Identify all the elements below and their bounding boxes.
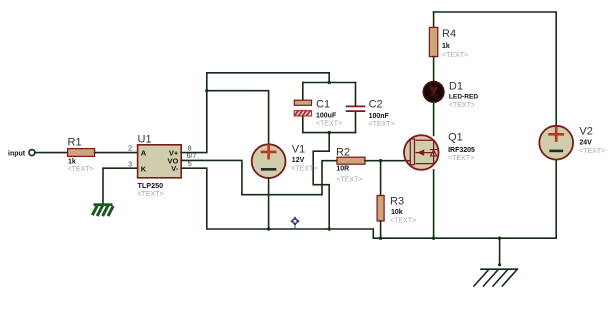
svg-text:100uF: 100uF bbox=[316, 113, 337, 120]
wire R3 top lead bbox=[380, 161, 382, 196]
junction R3 bottom on rail bbox=[379, 237, 382, 240]
svg-text:100nF: 100nF bbox=[369, 113, 390, 120]
ground (K pin of U1) bbox=[93, 203, 113, 214]
svg-text:12V: 12V bbox=[292, 157, 305, 164]
resistor R1 bbox=[68, 136, 95, 172]
junction V1 bottom on rail bbox=[267, 227, 270, 230]
wire Q1 source to ground rail bbox=[433, 170, 435, 238]
svg-text:2: 2 bbox=[128, 146, 132, 153]
resistor R3 bbox=[377, 195, 416, 224]
svg-text:<TEXT>: <TEXT> bbox=[316, 121, 342, 128]
wire R2 to Q1 gate bbox=[365, 160, 404, 162]
wire input to R1 bbox=[35, 152, 68, 154]
node input terminal bbox=[8, 150, 35, 158]
svg-text:V2: V2 bbox=[579, 126, 592, 138]
svg-text:6/7: 6/7 bbox=[187, 153, 197, 160]
junction earth stem on rail bbox=[498, 237, 501, 240]
wire R3 bottom lead bbox=[380, 221, 382, 238]
svg-text:R4: R4 bbox=[442, 28, 456, 40]
svg-text:1k: 1k bbox=[68, 158, 76, 165]
wire top rail right bbox=[434, 12, 557, 126]
wire R1 to U1 pin 2 bbox=[95, 152, 138, 154]
wire U1 pin 6/7 detour to R2 bbox=[181, 160, 337, 194]
wire U1 pin 5 along ground rail to V2 minus bbox=[181, 160, 556, 238]
svg-text:C2: C2 bbox=[369, 99, 383, 111]
svg-text:3: 3 bbox=[128, 161, 132, 168]
svg-text:<TEXT>: <TEXT> bbox=[291, 166, 317, 173]
svg-text:TLP250: TLP250 bbox=[138, 181, 164, 190]
wire U1 pin 3 to ground bbox=[103, 168, 138, 203]
svg-text:1k: 1k bbox=[442, 43, 450, 50]
svg-text:A: A bbox=[141, 149, 147, 158]
svg-text:R1: R1 bbox=[68, 136, 82, 148]
junction Q1 source on rail bbox=[432, 237, 435, 240]
diode D1 LED-RED bbox=[423, 81, 478, 109]
svg-text:V1: V1 bbox=[292, 144, 305, 156]
transistor Q1 IRF3205 bbox=[404, 131, 475, 169]
wire top rail to capacitor rail bbox=[207, 73, 329, 83]
junction zigzag on ground rail bbox=[328, 227, 331, 230]
wire zigzag cap rail to ground rail bbox=[313, 133, 329, 229]
svg-text:input: input bbox=[8, 151, 26, 158]
battery V2 24V bbox=[539, 126, 605, 160]
resistor R4 bbox=[429, 27, 468, 58]
svg-text:8: 8 bbox=[188, 145, 192, 152]
junction cap top rail bbox=[328, 81, 331, 84]
wire D1 to Q1 drain bbox=[433, 102, 435, 135]
svg-text:5: 5 bbox=[188, 161, 192, 168]
svg-text:R2: R2 bbox=[336, 147, 350, 159]
svg-text:D1: D1 bbox=[449, 81, 463, 93]
op-amp U1 TLP250 optocoupler body bbox=[138, 133, 182, 198]
junction R3 top on gate wire bbox=[379, 159, 382, 162]
wire earth stem bbox=[499, 238, 501, 264]
svg-text:IRF3205: IRF3205 bbox=[448, 147, 475, 154]
svg-text:C1: C1 bbox=[316, 99, 330, 111]
svg-text:U1: U1 bbox=[138, 133, 152, 145]
svg-text:<TEXT>: <TEXT> bbox=[390, 218, 416, 225]
svg-text:10k: 10k bbox=[391, 209, 403, 216]
svg-text:24V: 24V bbox=[579, 139, 592, 146]
wire U1 pin 8 up to top rail bbox=[181, 73, 207, 153]
wire capacitor bottom rail bbox=[303, 132, 356, 134]
svg-text:<TEXT>: <TEXT> bbox=[369, 121, 395, 128]
wire R4 top lead bbox=[433, 12, 435, 27]
svg-text:K: K bbox=[141, 164, 147, 173]
capacitor C1 bbox=[294, 83, 342, 133]
ground earth symbol bbox=[474, 263, 517, 286]
svg-text:R3: R3 bbox=[390, 195, 404, 207]
resistor R2 bbox=[336, 147, 365, 184]
battery V1 12V bbox=[252, 144, 318, 179]
svg-text:Q1: Q1 bbox=[448, 131, 463, 143]
svg-text:<TEXT>: <TEXT> bbox=[336, 176, 362, 183]
origin marker bbox=[290, 216, 300, 229]
svg-text:<TEXT>: <TEXT> bbox=[68, 166, 94, 173]
svg-text:<TEXT>: <TEXT> bbox=[448, 155, 474, 162]
capacitor C2 bbox=[347, 83, 395, 133]
svg-text:<TEXT>: <TEXT> bbox=[138, 191, 164, 198]
wire R4 to D1 bbox=[433, 57, 435, 82]
svg-text:LED-RED: LED-RED bbox=[449, 93, 479, 100]
wire capacitor top rail bbox=[303, 82, 356, 84]
wire V1 plus to pin8 vertical bbox=[207, 91, 269, 145]
svg-text:10R: 10R bbox=[336, 166, 349, 173]
junction cap bottom rail bbox=[328, 131, 331, 134]
svg-text:<TEXT>: <TEXT> bbox=[449, 102, 475, 109]
junction V1 top bbox=[205, 89, 208, 92]
svg-text:V-: V- bbox=[171, 164, 179, 173]
svg-text:<TEXT>: <TEXT> bbox=[442, 52, 468, 59]
wire V1 minus down to ground rail bbox=[268, 178, 270, 229]
svg-text:<TEXT>: <TEXT> bbox=[579, 148, 605, 155]
